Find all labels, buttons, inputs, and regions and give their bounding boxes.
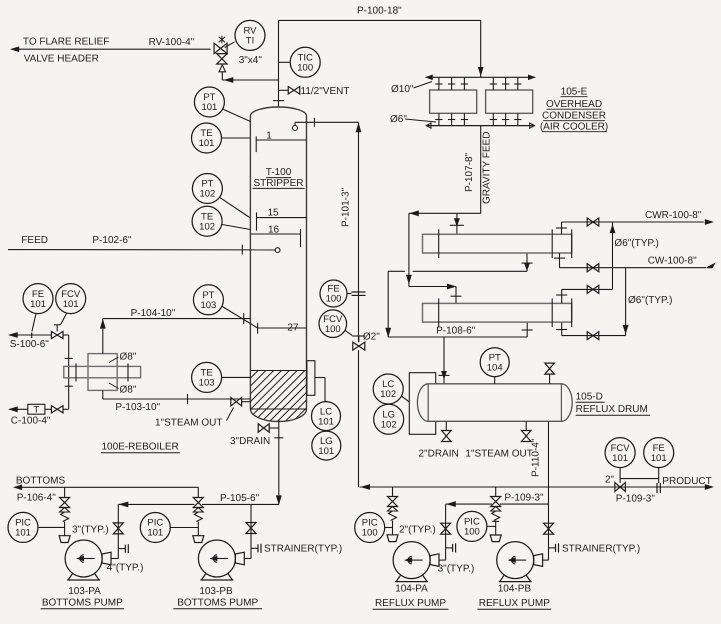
svg-text:BOTTOMS PUMP: BOTTOMS PUMP bbox=[42, 598, 123, 609]
svg-text:101: 101 bbox=[15, 528, 31, 539]
svg-text:P-104-10": P-104-10" bbox=[131, 308, 176, 319]
svg-text:OVERHEAD: OVERHEAD bbox=[546, 99, 602, 110]
svg-text:100E-REBOILER: 100E-REBOILER bbox=[102, 442, 179, 453]
svg-text:VALVE HEADER: VALVE HEADER bbox=[24, 54, 99, 65]
svg-text:2"DRAIN: 2"DRAIN bbox=[419, 449, 459, 460]
svg-text:16: 16 bbox=[268, 225, 280, 236]
svg-text:(AIR COOLER): (AIR COOLER) bbox=[540, 122, 608, 133]
svg-text:CONDENSER: CONDENSER bbox=[542, 111, 606, 122]
svg-text:102: 102 bbox=[381, 419, 397, 430]
svg-text:Ø2": Ø2" bbox=[363, 331, 380, 342]
svg-text:102: 102 bbox=[199, 221, 215, 232]
svg-text:105-E: 105-E bbox=[561, 87, 588, 98]
svg-text:P-108-6": P-108-6" bbox=[436, 326, 476, 337]
svg-text:P-102-6": P-102-6" bbox=[92, 235, 132, 246]
svg-text:T-100: T-100 bbox=[266, 167, 292, 178]
svg-text:100: 100 bbox=[297, 63, 313, 74]
svg-text:P-109-3": P-109-3" bbox=[504, 493, 544, 504]
svg-text:3"(TYP.): 3"(TYP.) bbox=[72, 525, 109, 536]
svg-text:CWR-100-8": CWR-100-8" bbox=[645, 210, 702, 221]
svg-text:Ø6": Ø6" bbox=[390, 114, 407, 125]
svg-text:3"DRAIN: 3"DRAIN bbox=[230, 436, 270, 447]
svg-text:103-PB: 103-PB bbox=[199, 586, 233, 597]
svg-text:P-100-18": P-100-18" bbox=[357, 6, 402, 17]
svg-text:P-110-4": P-110-4" bbox=[531, 438, 542, 477]
svg-text:STRAINER(TYP.): STRAINER(TYP.) bbox=[264, 544, 342, 555]
svg-text:TI: TI bbox=[246, 36, 254, 47]
svg-text:101: 101 bbox=[201, 102, 217, 113]
svg-text:FEED: FEED bbox=[21, 235, 48, 246]
svg-text:3"(TYP.): 3"(TYP.) bbox=[438, 564, 475, 575]
svg-text:103-PA: 103-PA bbox=[68, 586, 101, 597]
svg-text:GRAVITY FEED: GRAVITY FEED bbox=[482, 132, 493, 204]
svg-text:RV-100-4": RV-100-4" bbox=[149, 37, 195, 48]
svg-text:TO FLARE RELIEF: TO FLARE RELIEF bbox=[23, 37, 110, 48]
svg-text:C-100-4": C-100-4" bbox=[11, 416, 51, 427]
svg-text:P-105-6": P-105-6" bbox=[220, 493, 260, 504]
svg-text:104-PA: 104-PA bbox=[395, 584, 428, 595]
svg-text:101: 101 bbox=[63, 299, 79, 310]
svg-text:1"STEAM OUT: 1"STEAM OUT bbox=[155, 418, 222, 429]
svg-text:100: 100 bbox=[362, 528, 378, 539]
svg-text:REFLUX DRUM: REFLUX DRUM bbox=[576, 404, 648, 415]
svg-text:1"STEAM OUT: 1"STEAM OUT bbox=[465, 449, 532, 460]
svg-text:P-101-3": P-101-3" bbox=[341, 187, 352, 227]
svg-text:102: 102 bbox=[380, 389, 396, 400]
svg-text:Ø8": Ø8" bbox=[120, 352, 137, 363]
svg-text:BOTTOMS PUMP: BOTTOMS PUMP bbox=[177, 598, 258, 609]
svg-text:103: 103 bbox=[200, 300, 216, 311]
svg-text:105-D: 105-D bbox=[576, 392, 603, 403]
svg-text:100: 100 bbox=[464, 527, 480, 538]
svg-text:Ø6"(TYP.): Ø6"(TYP.) bbox=[628, 295, 673, 306]
svg-text:2"(TYP.): 2"(TYP.) bbox=[399, 525, 436, 536]
svg-text:100: 100 bbox=[325, 324, 341, 335]
svg-text:101: 101 bbox=[30, 299, 46, 310]
svg-text:101: 101 bbox=[318, 416, 334, 427]
svg-text:27: 27 bbox=[287, 323, 299, 334]
svg-text:REFLUX PUMP: REFLUX PUMP bbox=[479, 598, 550, 609]
svg-text:101: 101 bbox=[612, 453, 628, 464]
svg-text:Ø6"(TYP.): Ø6"(TYP.) bbox=[614, 238, 659, 249]
svg-text:4"(TYP.): 4"(TYP.) bbox=[107, 563, 144, 574]
svg-text:P-107-8": P-107-8" bbox=[464, 152, 475, 192]
svg-text:104: 104 bbox=[487, 362, 503, 373]
svg-text:PRODUCT: PRODUCT bbox=[662, 476, 711, 487]
svg-text:Ø8": Ø8" bbox=[120, 385, 137, 396]
svg-text:CW-100-8": CW-100-8" bbox=[648, 256, 697, 267]
svg-text:1: 1 bbox=[266, 131, 272, 142]
svg-text:T: T bbox=[33, 405, 39, 416]
svg-text:101: 101 bbox=[651, 453, 667, 464]
svg-text:104-PB: 104-PB bbox=[498, 584, 532, 595]
svg-text:102: 102 bbox=[199, 189, 215, 200]
svg-text:STRIPPER: STRIPPER bbox=[253, 178, 303, 189]
svg-text:100: 100 bbox=[326, 294, 342, 305]
svg-text:101: 101 bbox=[147, 528, 163, 539]
svg-text:P-109-3": P-109-3" bbox=[616, 494, 656, 505]
svg-text:103: 103 bbox=[199, 378, 215, 389]
svg-text:2": 2" bbox=[605, 475, 615, 486]
svg-text:STRAINER(TYP.): STRAINER(TYP.) bbox=[562, 544, 640, 555]
svg-text:15: 15 bbox=[267, 208, 279, 219]
svg-text:Ø10": Ø10" bbox=[391, 84, 414, 95]
svg-text:11/2"VENT: 11/2"VENT bbox=[301, 86, 350, 97]
svg-text:P-106-4": P-106-4" bbox=[17, 493, 57, 504]
svg-text:P-103-10": P-103-10" bbox=[115, 402, 160, 413]
svg-text:101: 101 bbox=[318, 446, 334, 457]
svg-text:S-100-6": S-100-6" bbox=[10, 339, 50, 350]
svg-text:REFLUX PUMP: REFLUX PUMP bbox=[375, 598, 446, 609]
svg-text:101: 101 bbox=[199, 138, 215, 149]
svg-text:3"x4": 3"x4" bbox=[239, 55, 263, 66]
svg-text:BOTTOMS: BOTTOMS bbox=[16, 476, 66, 487]
